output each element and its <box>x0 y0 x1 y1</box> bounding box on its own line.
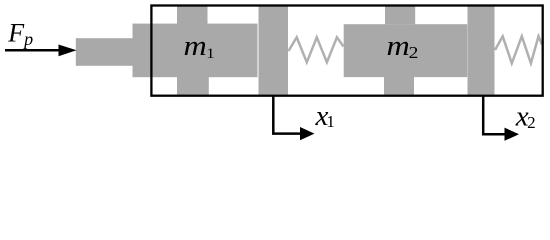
piston plate bar1 (right end of m1) <box>259 6 289 94</box>
cylinder housing outline <box>151 6 542 96</box>
displacement x2 arrowhead <box>505 128 520 141</box>
displacement x1 arrowhead <box>300 127 315 140</box>
m2 bottom guide tab <box>384 77 414 95</box>
force arrow Fp head <box>59 45 77 57</box>
label m1 <box>184 30 215 62</box>
label m2 <box>387 30 419 62</box>
spring k2 between bar2 and right wall <box>495 36 542 63</box>
displacement x2 elbow line <box>483 96 504 135</box>
force arrow Fp shaft <box>5 49 62 52</box>
mass m1 block <box>133 24 258 78</box>
piston plate bar2 (right end of m2) <box>468 6 495 95</box>
m2 top guide tab <box>385 7 415 25</box>
mass m2 block <box>344 24 468 77</box>
m1 top guide tab <box>177 7 208 25</box>
piston rod from force input <box>76 38 133 66</box>
spring k1 between bar1 and m2 <box>289 37 344 62</box>
displacement x1 elbow line <box>273 96 300 134</box>
m1 bottom guide tab <box>177 77 209 95</box>
